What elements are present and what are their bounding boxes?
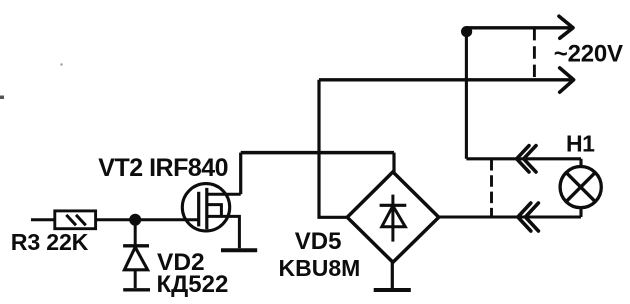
svg-text:~220V: ~220V: [554, 40, 623, 67]
svg-text:VD5: VD5: [295, 228, 342, 255]
svg-text:KBU8M: KBU8M: [279, 255, 361, 281]
svg-text:H1: H1: [566, 131, 595, 157]
svg-text:R3 22K: R3 22K: [11, 229, 89, 255]
svg-text:КД522: КД522: [157, 271, 229, 298]
svg-text:VT2 IRF840: VT2 IRF840: [98, 154, 228, 182]
